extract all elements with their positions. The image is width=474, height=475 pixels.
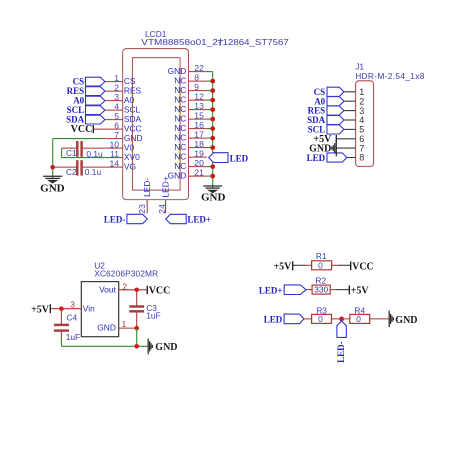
svg-text:8: 8	[359, 153, 364, 163]
svg-text:0: 0	[318, 260, 323, 270]
svg-text:RES: RES	[67, 86, 85, 96]
svg-text:NC: NC	[174, 76, 186, 86]
svg-text:GND: GND	[40, 182, 65, 194]
svg-text:NC: NC	[174, 95, 186, 105]
svg-text:GND: GND	[124, 133, 143, 143]
svg-text:LED+: LED+	[187, 214, 211, 224]
svg-text:C2: C2	[66, 167, 77, 177]
svg-text:RES: RES	[124, 86, 142, 96]
svg-text:XV0: XV0	[124, 152, 140, 162]
svg-text:21: 21	[194, 167, 204, 177]
svg-text:23: 23	[137, 204, 147, 214]
svg-text:17: 17	[194, 129, 204, 139]
svg-text:10: 10	[109, 139, 119, 149]
svg-text:SCL: SCL	[67, 105, 85, 115]
svg-text:13: 13	[194, 101, 204, 111]
svg-text:VTM88858o01_2: VTM88858o01_2	[141, 37, 218, 47]
svg-text:GND: GND	[395, 315, 417, 326]
svg-text:9: 9	[194, 82, 199, 92]
svg-text:330: 330	[314, 285, 328, 295]
svg-text:0: 0	[356, 314, 361, 324]
svg-text:18: 18	[194, 139, 204, 149]
svg-text:VCC: VCC	[71, 124, 93, 135]
svg-text:NC: NC	[174, 133, 186, 143]
svg-text:6: 6	[114, 120, 119, 130]
svg-text:Vout: Vout	[99, 284, 116, 294]
svg-text:NC: NC	[174, 85, 186, 95]
svg-text:NC: NC	[174, 114, 186, 124]
svg-text:7: 7	[114, 130, 119, 140]
svg-text:5: 5	[114, 111, 119, 121]
svg-text:2: 2	[123, 282, 128, 291]
svg-text:3: 3	[114, 92, 119, 102]
svg-text:GND: GND	[155, 342, 177, 353]
svg-text:GND: GND	[168, 171, 187, 181]
svg-text:8: 8	[194, 72, 199, 82]
svg-text:15: 15	[194, 110, 204, 120]
svg-text:LED+: LED+	[160, 176, 170, 197]
svg-text:+5V: +5V	[351, 286, 370, 297]
svg-text:VG: VG	[124, 162, 136, 172]
svg-text:+5V: +5V	[273, 262, 292, 273]
svg-text:VCC: VCC	[149, 286, 171, 297]
svg-text:0: 0	[318, 314, 323, 324]
svg-text:16: 16	[194, 120, 204, 130]
svg-text:0.1u: 0.1u	[85, 167, 102, 177]
svg-text:V0: V0	[124, 143, 135, 153]
svg-text:NC: NC	[174, 104, 186, 114]
svg-text:22: 22	[194, 63, 204, 73]
svg-text:0.1u: 0.1u	[86, 149, 103, 159]
svg-text:19: 19	[194, 148, 204, 158]
svg-text:LED-: LED-	[336, 341, 346, 363]
svg-text:1: 1	[122, 320, 127, 329]
svg-text:VCC: VCC	[352, 262, 374, 273]
svg-text:LED-: LED-	[142, 178, 152, 197]
svg-text:20: 20	[194, 158, 204, 168]
svg-text:2: 2	[114, 82, 119, 92]
svg-text:NC: NC	[174, 161, 186, 171]
svg-text:14: 14	[109, 158, 119, 168]
svg-text:1uF: 1uF	[66, 332, 80, 342]
svg-text:1uF: 1uF	[146, 310, 160, 320]
svg-text:12: 12	[194, 91, 204, 101]
svg-text:Vin: Vin	[83, 303, 95, 313]
svg-text:SDA: SDA	[124, 114, 142, 124]
svg-text:A0: A0	[73, 96, 84, 106]
svg-text:LED: LED	[307, 153, 326, 163]
svg-text:NC: NC	[174, 152, 186, 162]
svg-text:GND: GND	[168, 66, 187, 76]
svg-text:1: 1	[114, 73, 119, 83]
svg-text:VCC: VCC	[124, 124, 142, 134]
svg-text:24: 24	[157, 204, 167, 214]
svg-text:+5V: +5V	[31, 304, 50, 315]
svg-text:GND: GND	[201, 191, 226, 203]
svg-text:LED: LED	[264, 315, 283, 325]
svg-text:11: 11	[110, 149, 119, 159]
svg-text:HDR-M-2.54_1x8: HDR-M-2.54_1x8	[355, 71, 425, 81]
svg-text:C1: C1	[66, 148, 77, 158]
svg-text:LED: LED	[230, 154, 249, 164]
svg-text:4: 4	[114, 101, 119, 111]
svg-text:12864_ST7567: 12864_ST7567	[223, 37, 289, 47]
svg-text:SCL: SCL	[124, 105, 141, 115]
svg-text:J1: J1	[355, 61, 364, 71]
svg-text:C4: C4	[66, 312, 77, 322]
svg-text:CS: CS	[124, 76, 136, 86]
svg-text:A0: A0	[124, 95, 135, 105]
svg-text:GND: GND	[97, 323, 116, 333]
svg-text:3: 3	[70, 301, 75, 310]
svg-text:CS: CS	[73, 77, 85, 87]
svg-text:XC6206P302MR: XC6206P302MR	[94, 268, 158, 278]
svg-text:NC: NC	[174, 123, 186, 133]
svg-text:LED-: LED-	[104, 214, 126, 224]
svg-text:LED+: LED+	[259, 285, 283, 295]
svg-text:NC: NC	[174, 142, 186, 152]
